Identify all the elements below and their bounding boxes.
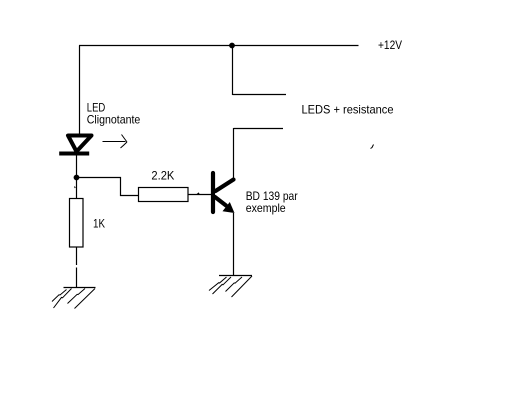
stray apostrophe mark bbox=[371, 145, 374, 149]
wire: node to 2.2K resistor (with jog) bbox=[77, 178, 139, 196]
resistor R1 1K body bbox=[70, 199, 84, 248]
wire: bottom stub from LEDs string bbox=[234, 128, 284, 130]
ground GND2 (right, hatched) bbox=[209, 276, 252, 298]
LED D1 (clignotante) bbox=[59, 136, 91, 154]
svg-text:+12V: +12V bbox=[378, 38, 402, 52]
node: junction on +12V rail bbox=[229, 43, 235, 49]
wire: left vertical from rail to LED anode bbox=[79, 46, 81, 134]
wire: emitter to ground bbox=[233, 213, 235, 276]
stray tick on wire bbox=[74, 187, 77, 189]
wire: collector riser bbox=[233, 128, 235, 180]
transistor Q1 BD139 bbox=[213, 173, 235, 213]
svg-text:LEDS + resistance: LEDS + resistance bbox=[302, 103, 394, 117]
svg-text:exemple: exemple bbox=[246, 201, 286, 215]
wire: top stub to LEDs string bbox=[233, 94, 287, 96]
arrow: blinking indicator bbox=[103, 135, 128, 149]
resistor R2 2.2K body bbox=[139, 188, 189, 202]
small arrowhead on base wire bbox=[196, 192, 200, 195]
svg-text:Clignotante: Clignotante bbox=[87, 113, 141, 127]
wire: LED cathode to node bbox=[76, 156, 78, 176]
svg-text:1K: 1K bbox=[93, 217, 105, 231]
wire: 2.2K to base bbox=[188, 194, 212, 196]
node: LED / 1K / 2.2K junction bbox=[74, 175, 80, 181]
ground GND1 (left, hatched) bbox=[52, 288, 96, 309]
wire: node to 1K resistor bbox=[76, 180, 78, 199]
wire: +12V top rail bbox=[79, 45, 359, 47]
wire: junction down to LEDs top stub bbox=[232, 46, 234, 96]
wire: 1K to ground (broken segments) bbox=[76, 247, 78, 288]
svg-text:2.2K: 2.2K bbox=[151, 168, 174, 182]
